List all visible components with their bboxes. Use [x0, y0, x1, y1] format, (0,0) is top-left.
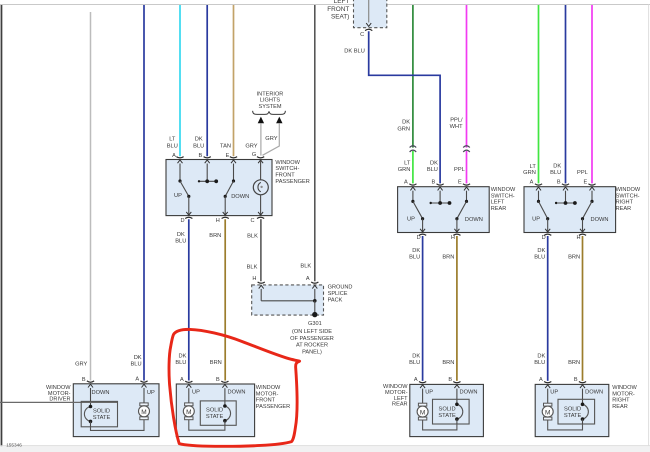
wire DK BLU (top to switch FP pin B): [206, 5, 208, 156]
svg-text:GRY: GRY: [245, 144, 257, 150]
svg-text:WINDOW: WINDOW: [612, 385, 637, 391]
red hand-drawn circle around front passenger motor: [169, 329, 300, 446]
solid state switch arc (driver): [84, 405, 92, 427]
label BRN (upper): [209, 233, 221, 239]
svg-text:BLU: BLU: [427, 167, 438, 173]
solid state label (driver): [93, 408, 111, 421]
solid state label (front passenger): [206, 408, 224, 421]
window motor left rear (box): [410, 384, 484, 436]
svg-text:A: A: [172, 153, 176, 159]
label WINDOW SWITCH-FRONT PASSENGER: [275, 160, 309, 185]
label GRY (right): [265, 136, 277, 142]
pin B: [199, 153, 211, 159]
solid state module (right rear): [558, 399, 595, 424]
svg-text:STATE: STATE: [438, 413, 456, 419]
svg-text:MOTOR-: MOTOR-: [612, 391, 635, 397]
svg-text:SOLID: SOLID: [439, 406, 456, 412]
svg-text:UP: UP: [532, 216, 540, 222]
svg-text:C: C: [360, 32, 364, 38]
label DK BLU (driver motor): [131, 355, 142, 368]
window switch left rear (box): [398, 187, 490, 233]
label GRY (left): [245, 144, 257, 150]
svg-text:BLU: BLU: [534, 360, 545, 366]
svg-text:DK: DK: [195, 136, 203, 142]
svg-text:B: B: [199, 153, 203, 159]
svg-text:PASSENGER: PASSENGER: [275, 179, 309, 185]
svg-text:BLU: BLU: [175, 360, 186, 366]
svg-text:A: A: [404, 180, 408, 186]
svg-text:BRN: BRN: [568, 360, 580, 366]
svg-text:M: M: [420, 410, 425, 417]
wire DK BLU (top to switch RR pin B): [565, 5, 567, 183]
svg-text:PPL: PPL: [577, 170, 588, 176]
svg-text:DOWN: DOWN: [228, 389, 246, 395]
svg-text:DK: DK: [430, 160, 438, 166]
svg-text:BRN: BRN: [210, 360, 222, 366]
diagram number 155346: [6, 442, 22, 447]
svg-text:A: A: [135, 377, 139, 383]
FP motor DOWN label: [228, 389, 246, 395]
svg-text:WINDOW: WINDOW: [491, 187, 516, 193]
pin B of right rear switch: [557, 180, 569, 186]
svg-text:SOLID: SOLID: [93, 408, 110, 414]
wire DK BLU (seat module pin C to switch LR pin B): [369, 31, 440, 183]
svg-text:H: H: [576, 235, 580, 241]
svg-text:H: H: [252, 276, 256, 282]
svg-text:PPL: PPL: [454, 167, 465, 173]
wire PPL (top to switch RR pin E): [591, 5, 593, 183]
svg-text:E: E: [458, 180, 462, 186]
pin H of left rear switch: [451, 234, 461, 241]
svg-text:SEAT): SEAT): [331, 14, 349, 21]
svg-text:BLU: BLU: [167, 143, 178, 149]
svg-text:STATE: STATE: [564, 413, 582, 419]
svg-text:BRN: BRN: [442, 360, 454, 366]
solid state label (right rear): [564, 406, 582, 419]
wire to driver motor solid state: [0, 401, 118, 403]
svg-text:BLK: BLK: [247, 234, 258, 240]
svg-text:DOWN: DOWN: [591, 217, 609, 223]
svg-text:B: B: [557, 180, 561, 186]
svg-text:H: H: [216, 218, 220, 224]
module under left front seat (dashed box): [354, 0, 387, 28]
RR motor UP lead: [545, 385, 558, 403]
solid state module (driver): [81, 401, 117, 426]
wire LT GRN (top to switch RR pin A): [538, 5, 540, 183]
page border left: [0, 4, 1, 449]
svg-text:WINDOW: WINDOW: [256, 385, 281, 391]
svg-text:GRY: GRY: [265, 136, 277, 142]
svg-text:DOWN: DOWN: [585, 390, 603, 396]
label LT BLU: [167, 136, 178, 149]
svg-text:(ON LEFT SIDE: (ON LEFT SIDE: [292, 329, 332, 335]
svg-text:A: A: [539, 377, 543, 383]
svg-text:SOLID: SOLID: [564, 406, 581, 412]
switch right rear UP blade: [532, 201, 549, 222]
RR motor DOWN lead: [580, 385, 603, 404]
pin E: [226, 153, 237, 159]
pin E of left rear switch: [458, 180, 470, 186]
wire BLK (top to splice pack pin A): [314, 5, 316, 281]
solid state label (left rear): [438, 406, 456, 419]
page border bottom: [0, 446, 650, 452]
wire PPL/WHT (top to connector): [466, 5, 468, 148]
solid state switch arc (front passenger): [223, 404, 230, 425]
label DK BLU (FP motor): [175, 354, 186, 367]
svg-text:RIGHT: RIGHT: [612, 398, 630, 404]
label BRN (FP motor): [210, 360, 222, 366]
wire BLK (switch FP pin C to splice pin H): [260, 219, 262, 281]
switch left rear pin H lead: [454, 219, 459, 233]
pin A of driver motor: [135, 377, 147, 383]
svg-text:B: B: [216, 377, 220, 383]
switch left rear common bar: [430, 201, 452, 205]
label PPL/WHT: [450, 117, 463, 129]
label DK BLU (seat module wire): [344, 49, 365, 55]
wire GRY (left arrow to pin G): [260, 123, 262, 155]
svg-text:SYSTEM: SYSTEM: [258, 104, 281, 110]
svg-text:UP: UP: [192, 389, 200, 395]
svg-text:GROUND: GROUND: [328, 285, 353, 291]
motor armature M (left rear): [417, 403, 428, 420]
switch FP UP contact blade: [174, 181, 190, 199]
label WINDOW SWITCH-RIGHT REAR: [616, 187, 641, 212]
switch FP pin E lead: [231, 160, 236, 183]
svg-text:DK: DK: [412, 354, 420, 360]
pin H: [216, 217, 229, 224]
svg-text:M: M: [141, 409, 146, 416]
switch right rear DOWN blade: [581, 201, 609, 223]
svg-text:LT: LT: [530, 164, 537, 170]
label BRN (LR lower): [442, 360, 454, 366]
motor return wire (right rear): [548, 420, 583, 430]
label GROUND SPLICE PACK: [328, 285, 353, 304]
wire DK BLU (switch FP pin D to motor FP pin A): [188, 219, 190, 380]
svg-text:A: A: [414, 377, 418, 383]
inline connector C200 (green): [410, 146, 417, 152]
svg-text:DK: DK: [537, 354, 545, 360]
label BLK (upper): [247, 234, 258, 240]
pin A of FP motor: [180, 377, 192, 383]
pin A of left rear switch: [404, 180, 416, 186]
svg-text:DK: DK: [553, 164, 561, 170]
pin A of RR motor: [539, 377, 551, 383]
switch left rear pin B lead: [438, 187, 443, 203]
svg-text:G301: G301: [308, 321, 322, 327]
switch right rear pin B lead: [563, 187, 568, 203]
motor armature M (right rear): [542, 403, 553, 420]
svg-text:FRONT: FRONT: [256, 398, 276, 404]
svg-text:G: G: [252, 152, 256, 158]
pin C of seat module: [360, 29, 372, 38]
window motor right rear (box): [535, 384, 609, 436]
pin B of driver motor: [82, 377, 94, 383]
svg-text:FRONT: FRONT: [275, 173, 295, 179]
svg-text:SWITCH-: SWITCH-: [275, 166, 299, 172]
svg-text:D: D: [542, 235, 546, 241]
svg-text:155346: 155346: [6, 442, 22, 447]
illumination lamp: [253, 180, 268, 195]
label WINDOW SWITCH-LEFT REAR: [491, 187, 516, 212]
svg-text:B: B: [432, 180, 436, 186]
svg-text:GRN: GRN: [523, 170, 536, 176]
label INTERIOR LIGHTS SYSTEM: [257, 91, 284, 110]
pin B of FP motor: [216, 377, 228, 383]
pin A of right rear switch: [530, 180, 542, 186]
wire PPL (connector to switch LR pin E): [466, 151, 468, 184]
pin D: [180, 217, 192, 224]
label DK BLU (RR lower): [534, 354, 545, 367]
svg-text:DK: DK: [412, 248, 420, 254]
label DK BLU (right rear): [550, 164, 561, 177]
motor return wire (front passenger): [189, 420, 225, 431]
pin D of right rear switch: [542, 234, 552, 241]
module label LEFT FRONT SEAT): [327, 0, 349, 21]
solid state switch arc (right rear): [581, 403, 589, 425]
svg-text:WHT: WHT: [450, 124, 463, 130]
svg-text:H: H: [451, 235, 455, 241]
pin A: [172, 153, 183, 159]
svg-text:DK: DK: [537, 248, 545, 254]
label DK BLU (left rear): [427, 160, 438, 173]
svg-text:FRONT: FRONT: [327, 6, 349, 13]
label PPL (left rear): [454, 167, 465, 173]
wire DK BLU (switch LR pin D to motor LR pin A): [422, 236, 424, 381]
LR motor DOWN lead: [454, 385, 477, 404]
switch right rear common bar: [555, 201, 577, 205]
label G301 location: [290, 329, 334, 355]
motor return wire (left rear): [423, 420, 457, 430]
svg-text:DK: DK: [134, 355, 142, 361]
splice pin A: [306, 276, 318, 283]
wire GRY (top to driver motor pin B): [90, 12, 92, 381]
window switch front passenger (box): [166, 160, 272, 216]
svg-text:BRN: BRN: [442, 255, 454, 261]
svg-text:GRY: GRY: [75, 361, 87, 367]
wire GRY (right arrow, jog to pin G): [263, 123, 280, 155]
svg-text:C: C: [250, 218, 254, 224]
window motor front passenger (box): [176, 384, 254, 437]
label PPL (right rear): [577, 170, 588, 176]
switch right rear pin E lead: [590, 187, 595, 203]
svg-text:PACK: PACK: [328, 298, 343, 304]
pin G: [252, 152, 264, 158]
svg-text:PPL/: PPL/: [450, 117, 463, 123]
svg-text:M: M: [186, 409, 191, 416]
svg-text:INTERIOR: INTERIOR: [257, 91, 284, 97]
svg-text:MOTOR-: MOTOR-: [256, 391, 279, 397]
svg-text:BRN: BRN: [568, 255, 580, 261]
switch right rear pin D lead: [545, 219, 550, 233]
driver motor UP lead: [142, 384, 156, 403]
svg-text:UP: UP: [425, 390, 433, 396]
window motor driver (box): [73, 384, 159, 437]
svg-text:PANEL): PANEL): [302, 349, 322, 355]
label WINDOW MOTOR-LEFT REAR: [383, 384, 408, 407]
label DK BLU (RR upper): [534, 248, 545, 261]
svg-text:DK: DK: [402, 120, 410, 126]
svg-text:AT ROCKER: AT ROCKER: [296, 343, 328, 349]
switch FP pin A lead: [178, 160, 183, 183]
svg-text:PASSENGER: PASSENGER: [256, 404, 290, 410]
module internal wire with down arrow: [366, 0, 371, 26]
splice internal wires: [259, 285, 318, 313]
pin B of LR motor: [448, 377, 460, 383]
label GRY (driver motor): [75, 361, 87, 367]
svg-text:A: A: [180, 377, 184, 383]
svg-text:M: M: [545, 410, 550, 417]
svg-text:DOWN: DOWN: [92, 390, 110, 396]
pin H of right rear switch: [576, 234, 586, 241]
svg-text:D: D: [417, 235, 421, 241]
switch FP DOWN contact blade: [224, 181, 250, 200]
switch FP common bar: [198, 179, 218, 183]
splice pin H: [252, 276, 264, 283]
pin B of RR motor: [574, 377, 586, 383]
switch FP pin H lead: [223, 196, 228, 215]
brace under interior lights system: [253, 111, 286, 115]
label BRN (RR lower): [568, 360, 580, 366]
label DK BLU (upper): [175, 232, 186, 245]
label BRN (RR upper): [568, 255, 580, 261]
svg-text:LIGHTS: LIGHTS: [260, 98, 280, 104]
label DK BLU (LR lower): [409, 354, 420, 367]
wire LT GRN (connector to switch LR pin A): [412, 151, 414, 184]
FP motor UP lead: [186, 384, 200, 403]
svg-text:DK: DK: [178, 354, 186, 360]
svg-text:SWITCH-: SWITCH-: [491, 193, 515, 199]
svg-text:E: E: [584, 180, 588, 186]
wire BRN (switch LR pin H to motor LR pin B): [456, 236, 458, 381]
svg-text:REAR: REAR: [616, 206, 632, 212]
label BLK (lower right): [300, 263, 311, 269]
pin E of right rear switch: [584, 180, 596, 186]
svg-text:WINDOW: WINDOW: [275, 160, 300, 166]
LR motor UP lead: [420, 385, 433, 403]
svg-text:D: D: [180, 218, 184, 224]
page border right: [648, 5, 650, 446]
svg-text:DOWN: DOWN: [460, 390, 478, 396]
svg-text:LT: LT: [404, 160, 411, 166]
driver motor DOWN lead: [88, 384, 110, 406]
switch right rear pin A lead: [536, 187, 541, 203]
svg-text:BLU: BLU: [409, 360, 420, 366]
switch FP pin D lead: [186, 196, 191, 215]
page border top: [0, 4, 650, 6]
wire DK BLU (top to driver motor pin A): [143, 5, 145, 381]
pin C: [250, 217, 264, 224]
motor armature M (front passenger): [183, 403, 194, 420]
svg-text:STATE: STATE: [93, 415, 111, 421]
pin A of LR motor: [414, 377, 426, 383]
arrow to interior lights (left): [258, 117, 264, 124]
label LT GRN (left rear): [398, 160, 411, 173]
svg-text:BLU: BLU: [175, 239, 186, 245]
svg-text:UP: UP: [147, 390, 155, 396]
svg-text:B: B: [82, 377, 86, 383]
switch left rear UP blade: [407, 201, 424, 222]
label BRN (LR upper): [442, 255, 454, 261]
svg-text:REAR: REAR: [612, 404, 628, 410]
motor return wire (driver): [91, 420, 145, 431]
ground G301: [308, 312, 322, 327]
svg-text:SOLID: SOLID: [206, 408, 223, 414]
switch right rear pin H lead: [580, 219, 585, 233]
svg-text:BLK: BLK: [300, 263, 311, 269]
switch left rear pin D lead: [420, 219, 425, 233]
svg-text:BLU: BLU: [409, 255, 420, 261]
svg-text:B: B: [448, 377, 452, 383]
svg-text:DK BLU: DK BLU: [344, 49, 365, 55]
svg-text:RIGHT: RIGHT: [616, 200, 634, 206]
wire DK BLU (switch RR pin D to motor RR pin A): [547, 236, 549, 381]
arrow to interior lights (right): [276, 117, 282, 124]
switch left rear pin A lead: [410, 187, 415, 203]
wire TAN (top to switch FP pin E): [233, 5, 235, 156]
svg-text:B: B: [574, 377, 578, 383]
switch left rear DOWN blade: [455, 201, 483, 223]
svg-text:WINDOW: WINDOW: [616, 187, 641, 193]
wire BRN (switch FP pin H to motor FP pin B): [224, 219, 226, 380]
svg-text:UP: UP: [407, 216, 415, 222]
svg-text:A: A: [306, 276, 310, 282]
svg-text:BLU: BLU: [534, 255, 545, 261]
svg-text:REAR: REAR: [392, 402, 408, 408]
label WINDOW MOTOR-RIGHT REAR: [612, 385, 637, 410]
svg-text:TAN: TAN: [220, 143, 231, 149]
label BLK (lower left): [247, 265, 258, 271]
svg-text:DRIVER: DRIVER: [49, 397, 70, 403]
svg-text:BLU: BLU: [550, 170, 561, 176]
label DK BLU: [193, 136, 204, 149]
svg-text:SWITCH-: SWITCH-: [616, 193, 640, 199]
label WINDOW MOTOR-FRONT PASSENGER: [256, 385, 290, 410]
svg-text:DOWN: DOWN: [231, 194, 249, 200]
svg-text:E: E: [226, 153, 230, 159]
FP motor DOWN lead: [222, 384, 227, 406]
switch FP pin B lead: [205, 160, 210, 181]
svg-text:GRN: GRN: [398, 167, 411, 173]
svg-text:BRN: BRN: [209, 233, 221, 239]
wire DK GRN (top to connector): [412, 5, 414, 148]
solid state switch arc (left rear): [455, 403, 463, 425]
svg-text:UP: UP: [174, 193, 182, 199]
switch FP pin C lead: [258, 195, 263, 216]
motor armature M (driver): [139, 403, 150, 420]
solid state module (front passenger): [200, 401, 236, 425]
label WINDOW MOTOR-DRIVER: [46, 385, 71, 402]
switch FP lamp feed: [258, 160, 263, 180]
pin D of left rear switch: [417, 234, 427, 241]
pin B of left rear switch: [432, 180, 444, 186]
solid state module (left rear): [433, 399, 470, 424]
label DK BLU (LR upper): [409, 248, 420, 261]
svg-text:UP: UP: [550, 390, 558, 396]
svg-text:SPLICE: SPLICE: [328, 291, 348, 297]
svg-text:BLU: BLU: [193, 143, 204, 149]
window switch right rear (box): [524, 187, 616, 233]
label TAN: [220, 143, 231, 149]
svg-text:OF PASSENGER: OF PASSENGER: [290, 336, 334, 342]
switch left rear pin E lead: [464, 187, 469, 203]
wire BRN (switch RR pin H to motor RR pin B): [582, 236, 584, 381]
svg-text:REAR: REAR: [491, 206, 507, 212]
inline connector C200 (purple): [463, 146, 470, 152]
wire LT BLU (top to switch FP pin A): [179, 5, 181, 156]
svg-text:LEFT: LEFT: [334, 0, 350, 5]
svg-text:DOWN: DOWN: [465, 217, 483, 223]
label LT GRN (right rear): [523, 164, 536, 176]
